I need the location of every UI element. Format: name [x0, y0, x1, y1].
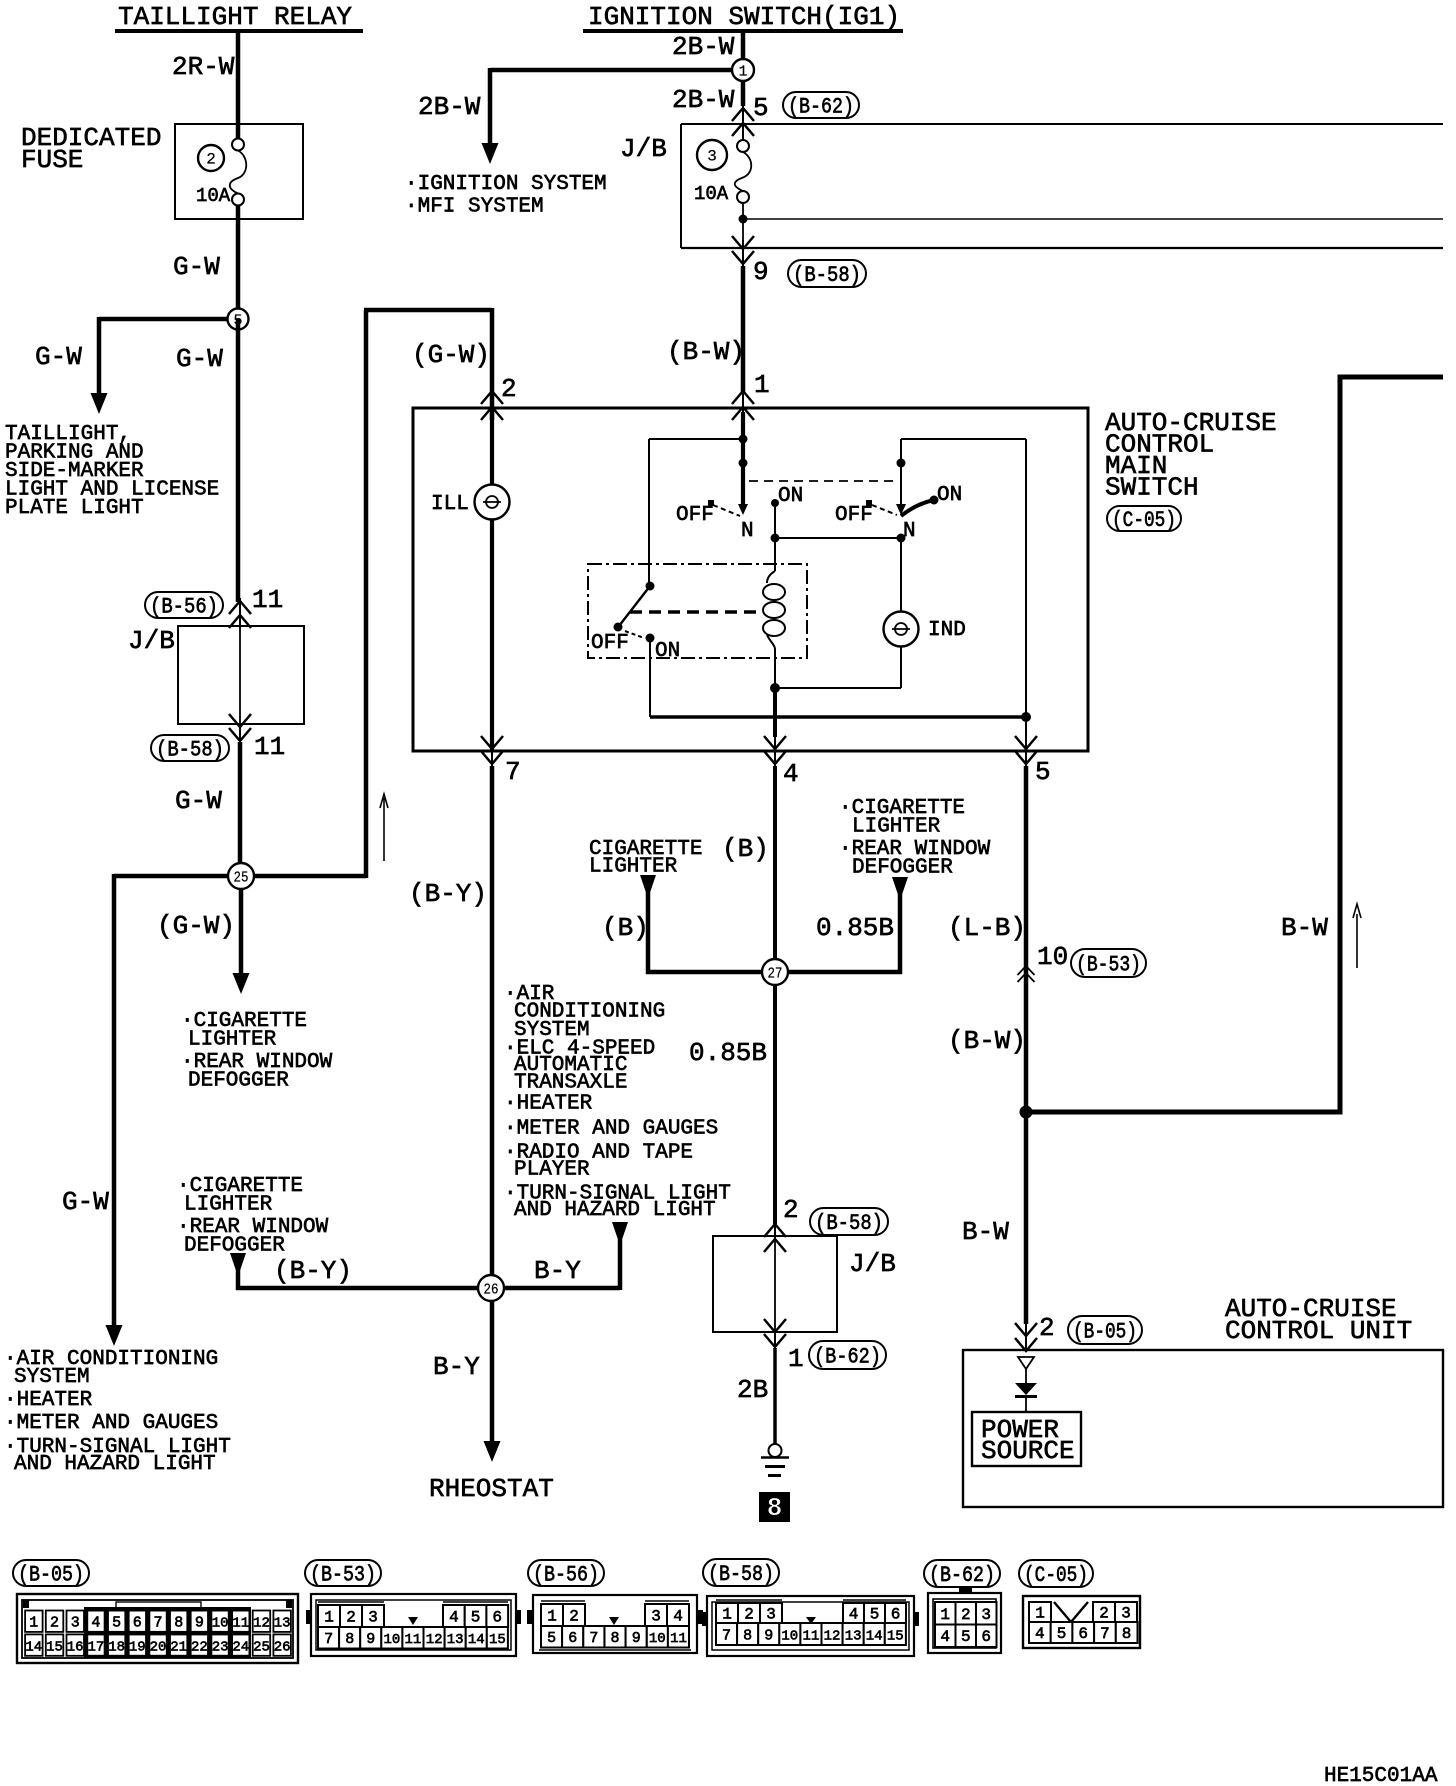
svg-text:OFF: OFF	[591, 632, 629, 655]
svg-text:9: 9	[764, 1628, 773, 1645]
svg-text:·MFI SYSTEM: ·MFI SYSTEM	[405, 196, 544, 219]
connector chevron B-56 pin 11 upper	[229, 601, 251, 614]
arrow to cigarette lighter circuits	[233, 973, 250, 994]
arrow up to cigarette lighter	[640, 875, 656, 892]
ground reference number 8 (white on black)	[759, 1492, 790, 1523]
connector label B-58	[151, 735, 229, 763]
svg-text:8: 8	[767, 1493, 783, 1523]
connector label B-05	[1068, 1316, 1142, 1345]
contact ON (right switch)	[930, 496, 939, 505]
svg-text:(B-58): (B-58)	[156, 738, 224, 763]
wire (B-W) to auto-cruise switch	[741, 266, 746, 392]
svg-text:18: 18	[108, 1640, 125, 1656]
wire (L-B)/(B-W) pin 5 down to control unit	[1024, 766, 1029, 1324]
svg-text:(B-62): (B-62)	[814, 1345, 881, 1370]
wire diode to power source	[1025, 1397, 1027, 1412]
junction dot	[739, 435, 748, 444]
wire left leg down to relay switch	[648, 439, 650, 587]
connector chevron B-58 pin 2 upper	[764, 1224, 786, 1237]
svg-text:(B-05): (B-05)	[1073, 1320, 1137, 1345]
wire coil to junction	[774, 649, 776, 692]
wire (B-Y) elbow up-left of node 26	[236, 1266, 241, 1290]
svg-text:5: 5	[471, 1609, 481, 1627]
lamp ILL illumination bulb	[475, 485, 510, 520]
svg-text:11: 11	[254, 732, 285, 762]
svg-text:(B-58): (B-58)	[708, 1562, 774, 1587]
svg-text:11: 11	[670, 1631, 687, 1647]
svg-text:5: 5	[870, 1606, 880, 1624]
svg-text:B-W: B-W	[1281, 913, 1328, 943]
svg-text:12: 12	[426, 1632, 443, 1648]
svg-text:2: 2	[206, 151, 216, 169]
svg-text:DEFOGGER: DEFOGGER	[852, 857, 953, 880]
wire through pin 5 chevrons	[1025, 717, 1027, 768]
wire bus under IGNITION SWITCH	[583, 29, 903, 33]
svg-text:J/B: J/B	[849, 1249, 896, 1279]
svg-text:14: 14	[866, 1629, 883, 1645]
contact OFF (right switch)	[866, 500, 872, 506]
svg-text:(C-05): (C-05)	[1112, 508, 1176, 533]
svg-text:4: 4	[940, 1628, 950, 1646]
svg-text:2B-W: 2B-W	[672, 85, 735, 115]
junction dot	[897, 534, 906, 543]
svg-text:3: 3	[766, 1606, 776, 1624]
svg-text:3: 3	[707, 148, 717, 166]
wire top edge of right sub-circuit	[901, 438, 1026, 440]
svg-text:20: 20	[150, 1640, 167, 1656]
svg-text:21: 21	[170, 1640, 187, 1656]
svg-text:(B-58): (B-58)	[793, 263, 861, 288]
switch pin 4 chevron upper	[764, 736, 786, 749]
junction dot on J/B bus	[739, 215, 748, 224]
svg-text:1: 1	[324, 1609, 334, 1627]
svg-text:9: 9	[753, 257, 769, 287]
circled fuse number 2	[198, 145, 224, 171]
svg-text:1: 1	[738, 64, 747, 81]
connector chevron B-62 pin 1 upper	[764, 1319, 786, 1332]
svg-text:5: 5	[547, 1630, 556, 1647]
svg-text:3: 3	[368, 1609, 378, 1627]
wire to diode	[1025, 1369, 1027, 1383]
connector label C-05	[1107, 506, 1181, 533]
fuse F3 10A symbol	[735, 140, 752, 203]
svg-text:B-W: B-W	[962, 1217, 1009, 1247]
wire G-W J/B to node 25	[238, 742, 243, 876]
svg-text:PLATE LIGHT: PLATE LIGHT	[5, 497, 144, 520]
wire to relay-switch leg	[649, 438, 743, 440]
svg-text:LIGHTER: LIGHTER	[184, 1194, 273, 1217]
wire 2B-W ignition switch to node 1	[741, 31, 746, 70]
wire pin2 to pin7 through ILL lamp	[490, 412, 494, 751]
wire through B-58 pin 2 chevrons	[774, 1220, 776, 1238]
node 25	[228, 863, 254, 889]
svg-text:ON: ON	[937, 484, 962, 507]
svg-text:12: 12	[253, 1616, 270, 1632]
svg-text:FUSE: FUSE	[21, 145, 83, 175]
wire to IND lamp	[900, 538, 902, 612]
connector label B-62 mid	[809, 1341, 886, 1370]
svg-text:13: 13	[274, 1616, 291, 1632]
svg-text:RHEOSTAT: RHEOSTAT	[429, 1474, 554, 1504]
svg-text:HE15C01AA: HE15C01AA	[1324, 1765, 1438, 1786]
wire G-W down to A/C arrow	[112, 874, 117, 1327]
wire (G-W) below node 25	[239, 876, 244, 975]
svg-text:IND: IND	[928, 619, 966, 642]
wire (B-Y) pin 7 to rheostat	[490, 766, 495, 1443]
svg-text:1: 1	[788, 1344, 804, 1374]
wire through B-05 pin 2 chevrons	[1025, 1324, 1027, 1352]
auto-cruise control main switch box C-05	[413, 408, 1088, 751]
svg-text:(B-56): (B-56)	[533, 1563, 599, 1588]
svg-text:(C-05): (C-05)	[1024, 1563, 1088, 1588]
svg-text:2: 2	[569, 1608, 579, 1626]
wire through exit chevrons	[239, 724, 241, 744]
relay contact ON	[646, 634, 655, 643]
svg-text:17: 17	[87, 1640, 104, 1656]
svg-text:11: 11	[232, 1616, 249, 1632]
svg-text:(B-Y): (B-Y)	[409, 879, 487, 909]
svg-text:·HEATER: ·HEATER	[4, 1389, 93, 1412]
svg-text:(B-53): (B-53)	[310, 1563, 376, 1588]
junction dot	[739, 459, 748, 468]
switch pin 2 chevron upper	[481, 391, 503, 404]
svg-text:(B-W): (B-W)	[948, 1026, 1026, 1056]
svg-text:8: 8	[345, 1631, 354, 1648]
svg-text:10A: 10A	[196, 185, 231, 207]
svg-text:6: 6	[981, 1628, 991, 1646]
svg-text:5: 5	[1057, 1625, 1067, 1643]
svg-text:G-W: G-W	[62, 1187, 109, 1217]
wire into node 27 from left	[646, 970, 775, 975]
connector pinout B-58	[702, 1559, 919, 1656]
svg-text:23: 23	[212, 1640, 229, 1656]
svg-text:6: 6	[133, 1615, 142, 1632]
svg-text:12: 12	[824, 1629, 841, 1645]
wire through pin 7 chevrons	[491, 737, 493, 768]
svg-text:1: 1	[722, 1606, 732, 1624]
wire fuse to J/B bottom	[742, 203, 744, 240]
arrow up to turn-signal/hazard	[612, 1222, 628, 1239]
svg-text:OFF: OFF	[676, 504, 714, 527]
connector chevron B-58 pin 2 lower	[764, 1239, 786, 1252]
svg-text:SOURCE: SOURCE	[981, 1436, 1075, 1466]
svg-text:22: 22	[191, 1640, 208, 1656]
wire 0.85B node 27 down to J/B	[773, 985, 777, 1224]
svg-text:4: 4	[673, 1608, 683, 1626]
svg-text:7: 7	[589, 1630, 598, 1647]
connector label B-62	[783, 92, 859, 120]
wire relay ON contact down to bus	[649, 638, 651, 717]
svg-text:16: 16	[67, 1640, 84, 1656]
svg-text:4: 4	[1035, 1625, 1045, 1643]
svg-text:(B-56): (B-56)	[150, 595, 218, 620]
connector chevron B-56 pin 11 lower	[229, 615, 251, 628]
svg-text:(L-B): (L-B)	[948, 913, 1026, 943]
wire down to taillight arrow	[97, 317, 102, 395]
svg-text:G-W: G-W	[173, 252, 220, 282]
wire cross to IND branch	[775, 537, 901, 539]
svg-text:2: 2	[1039, 1313, 1055, 1343]
svg-text:J/B: J/B	[128, 626, 175, 656]
svg-text:11: 11	[252, 585, 283, 615]
switch pin 7 chevron lower	[481, 751, 503, 764]
wire coil junction to pin 4	[773, 688, 777, 737]
svg-text:25: 25	[253, 1640, 270, 1656]
svg-text:G-W: G-W	[176, 344, 223, 374]
svg-text:15: 15	[887, 1629, 904, 1645]
junction block J/B (mid)	[713, 1236, 837, 1332]
svg-text:10: 10	[383, 1632, 400, 1648]
junction dot B-W	[1020, 1106, 1033, 1119]
svg-text:PLAYER: PLAYER	[514, 1159, 590, 1182]
svg-text:2: 2	[783, 1195, 799, 1225]
svg-text:LIGHTER: LIGHTER	[589, 856, 678, 879]
svg-text:4: 4	[783, 759, 799, 789]
switch arm to OFF dashed right	[872, 505, 897, 515]
svg-text:·METER AND GAUGES: ·METER AND GAUGES	[4, 1412, 218, 1435]
svg-text:7: 7	[153, 1615, 162, 1632]
svg-text:J/B: J/B	[620, 134, 667, 164]
ground symbol	[761, 1444, 789, 1476]
connector chevron B-58 pin 11 lower	[229, 728, 251, 741]
wire pin 1 to main switch contact	[741, 412, 745, 505]
svg-text:1: 1	[547, 1608, 557, 1626]
connector chevron B-58 pin 11 upper	[229, 714, 251, 727]
switch pin 4 chevron lower	[764, 751, 786, 764]
arrow to ignition system	[482, 143, 499, 164]
wire (B-Y) into node 26	[236, 1286, 491, 1291]
wire G-W node5 to J/B	[236, 319, 241, 602]
svg-text:24: 24	[232, 1640, 249, 1656]
svg-text:6: 6	[1078, 1625, 1088, 1643]
svg-text:AND HAZARD LIGHT: AND HAZARD LIGHT	[514, 1199, 716, 1222]
mechanical linkage dashed	[749, 480, 899, 482]
lamp IND indicator bulb	[884, 612, 919, 647]
svg-text:10: 10	[212, 1616, 229, 1632]
svg-text:1: 1	[1035, 1605, 1045, 1623]
svg-text:3: 3	[651, 1608, 661, 1626]
svg-text:2: 2	[501, 374, 517, 404]
connector chevron B-62 pin 5 upper	[732, 108, 754, 121]
svg-text:(B): (B)	[722, 834, 769, 864]
svg-text:·HEATER: ·HEATER	[504, 1093, 593, 1116]
junction block J/B (left)	[178, 626, 304, 724]
svg-text:14: 14	[25, 1640, 42, 1656]
connector pinout B-62	[924, 1560, 1001, 1653]
wire bus under TAILLIGHT RELAY	[115, 29, 363, 33]
wire to relay coil	[774, 538, 776, 571]
svg-text:2B-W: 2B-W	[418, 92, 481, 122]
svg-text:9: 9	[366, 1631, 375, 1648]
svg-text:6: 6	[568, 1630, 577, 1647]
svg-text:8: 8	[174, 1615, 183, 1632]
junction block J/B (top right)	[681, 123, 1443, 125]
relay coil L1	[763, 571, 785, 649]
node 5	[228, 309, 249, 330]
wire G-W fuse to node 5	[236, 205, 241, 319]
svg-text:5: 5	[112, 1615, 121, 1632]
wire 2R-W from taillight relay down to fuse	[236, 31, 241, 140]
connector chevron B-05 pin 2 lower	[1015, 1338, 1037, 1351]
svg-text:5: 5	[961, 1628, 971, 1646]
arrow up to cigarette lighter/defogger	[230, 1253, 246, 1270]
arrow up to defogger	[892, 877, 908, 894]
wire ON contact down	[774, 503, 776, 538]
svg-text:5: 5	[753, 93, 769, 123]
svg-text:13: 13	[447, 1632, 464, 1648]
svg-text:(B-W): (B-W)	[667, 337, 745, 367]
svg-text:8: 8	[610, 1630, 619, 1647]
svg-text:5: 5	[1035, 757, 1051, 787]
direction arrow up (thin, right)	[1353, 904, 1361, 968]
connector chevron B-05 pin 2 upper	[1015, 1323, 1037, 1336]
wire switch common bus to pin 5	[650, 715, 1026, 719]
wire node 1 down	[741, 81, 746, 106]
svg-text:15: 15	[46, 1640, 63, 1656]
wire branch from node 5 to left	[99, 317, 238, 322]
svg-text:2: 2	[961, 1606, 971, 1624]
svg-text:SYSTEM: SYSTEM	[14, 1366, 90, 1389]
connector pinout B-05	[13, 1560, 298, 1663]
wire branch node 25 to left	[114, 874, 241, 879]
svg-text:3: 3	[1121, 1605, 1131, 1623]
svg-text:G-W: G-W	[35, 342, 82, 372]
wire right branch of node 27	[898, 890, 903, 974]
svg-text:6: 6	[492, 1609, 502, 1627]
connector entry open triangle	[1018, 1357, 1034, 1369]
svg-text:8: 8	[1122, 1625, 1132, 1643]
svg-text:(B-Y): (B-Y)	[274, 1256, 352, 1286]
svg-text:ILL: ILL	[431, 493, 469, 516]
arrow to air conditioning circuits	[106, 1325, 123, 1346]
switch pin 7 chevron upper	[481, 736, 503, 749]
svg-text:2B: 2B	[737, 1375, 768, 1405]
svg-text:SWITCH: SWITCH	[1105, 473, 1199, 503]
svg-text:2: 2	[744, 1606, 754, 1624]
svg-text:10: 10	[649, 1631, 666, 1647]
wire right leg down to pin 5 bus	[1025, 439, 1027, 717]
svg-text:LIGHTER: LIGHTER	[852, 816, 941, 839]
svg-text:(B-58): (B-58)	[815, 1211, 883, 1236]
svg-text:11: 11	[404, 1632, 421, 1648]
switch pin 5 chevron upper	[1015, 736, 1037, 749]
svg-text:LIGHTER: LIGHTER	[188, 1029, 277, 1052]
J/B internal bus line	[743, 218, 1443, 220]
wire into node 27 from right	[775, 970, 902, 975]
svg-text:B-Y: B-Y	[433, 1352, 480, 1382]
svg-text:8: 8	[743, 1628, 752, 1645]
wire through pin 1 chevrons	[742, 390, 744, 420]
svg-text:3: 3	[71, 1615, 80, 1632]
dedicated fuse box	[175, 124, 303, 219]
connector pinout C-05	[1019, 1560, 1140, 1648]
svg-text:·METER AND GAUGES: ·METER AND GAUGES	[504, 1118, 718, 1141]
junction dot pin5 bus	[1021, 712, 1031, 722]
svg-text:AND HAZARD LIGHT: AND HAZARD LIGHT	[14, 1453, 216, 1476]
power source block	[972, 1412, 1081, 1466]
svg-text:2B-W: 2B-W	[672, 32, 735, 62]
svg-text:IGNITION SWITCH(IG1): IGNITION SWITCH(IG1)	[588, 2, 900, 32]
node 26	[478, 1275, 504, 1301]
connector chevron B-53 pin 10 lower	[1018, 973, 1035, 982]
svg-text:4: 4	[849, 1606, 859, 1624]
svg-text:9: 9	[632, 1630, 641, 1647]
relay sub-box (dash-dot)	[588, 564, 807, 658]
fuse F2 10A symbol	[230, 139, 247, 206]
connector chevron B-62 pin 5 lower	[732, 123, 754, 136]
switch arm to OFF dashed	[713, 505, 740, 516]
wire through pin 4 chevrons	[774, 737, 776, 768]
wire inside left J/B	[239, 628, 241, 724]
wire through B-62 pin 1 chevrons	[774, 1332, 776, 1350]
svg-text:(B-62): (B-62)	[788, 95, 854, 120]
auto-cruise control unit box	[963, 1350, 1443, 1507]
svg-text:10: 10	[781, 1629, 798, 1645]
relay contact OFF	[614, 623, 623, 632]
svg-text:TAILLIGHT RELAY: TAILLIGHT RELAY	[118, 2, 352, 32]
relay switch pivot	[646, 582, 655, 591]
switch pin 1 chevron lower	[732, 407, 754, 420]
wire (B) pin 4 to node 27	[773, 766, 777, 962]
wire through B-62 connector	[742, 106, 744, 141]
connector chevron B-53 pin 10 upper	[1018, 966, 1035, 975]
svg-text:3: 3	[981, 1606, 991, 1624]
junction dot below coil	[770, 683, 780, 693]
contact OFF (left switch)	[708, 500, 714, 506]
svg-text:OFF: OFF	[835, 504, 873, 527]
svg-text:2: 2	[1099, 1605, 1109, 1623]
svg-text:DEFOGGER: DEFOGGER	[188, 1070, 289, 1093]
connector pinout B-56	[527, 1560, 703, 1653]
junction dot	[771, 534, 780, 543]
arrow to rheostat	[484, 1441, 501, 1462]
svg-text:11: 11	[802, 1629, 819, 1645]
wire riser up (G-W)	[364, 310, 369, 878]
svg-text:1: 1	[29, 1615, 38, 1632]
svg-text:2: 2	[346, 1609, 356, 1627]
svg-text:(B): (B)	[602, 913, 649, 943]
wire B-W from top right corner	[1026, 377, 1443, 1112]
svg-text:(G-W): (G-W)	[157, 911, 235, 941]
svg-text:(G-W): (G-W)	[412, 340, 490, 370]
node 1	[732, 59, 754, 81]
arrow to taillight circuits	[91, 393, 108, 414]
wire B-Y node 26 to right elbow	[491, 1286, 620, 1291]
svg-text:TRANSAXLE: TRANSAXLE	[514, 1072, 627, 1095]
wire to IND switch contact	[900, 439, 902, 505]
svg-text:10: 10	[1037, 942, 1068, 972]
wire IND lamp down	[900, 646, 902, 688]
switch pin 5 chevron lower	[1015, 751, 1037, 764]
svg-text:6: 6	[891, 1606, 901, 1624]
wire inside mid J/B	[774, 1238, 776, 1332]
switch pin 2 chevron lower	[481, 407, 503, 420]
svg-text:26: 26	[274, 1640, 291, 1656]
svg-text:26: 26	[484, 1282, 499, 1299]
svg-text:7: 7	[505, 757, 521, 787]
svg-text:0.85B: 0.85B	[689, 1038, 767, 1068]
connector label B-58 mid	[810, 1208, 888, 1236]
wire through connector chevrons	[239, 598, 241, 628]
junction dot right	[897, 459, 906, 468]
wire branch node 1 to left	[490, 68, 743, 73]
connector label B-53	[1071, 949, 1146, 978]
connector chevron B-62 pin 1 lower	[764, 1334, 786, 1347]
svg-text:N: N	[741, 520, 754, 543]
svg-text:9: 9	[195, 1615, 204, 1632]
svg-text:2R-W: 2R-W	[172, 52, 235, 82]
relay mechanical linkage thick dashed	[630, 610, 763, 614]
